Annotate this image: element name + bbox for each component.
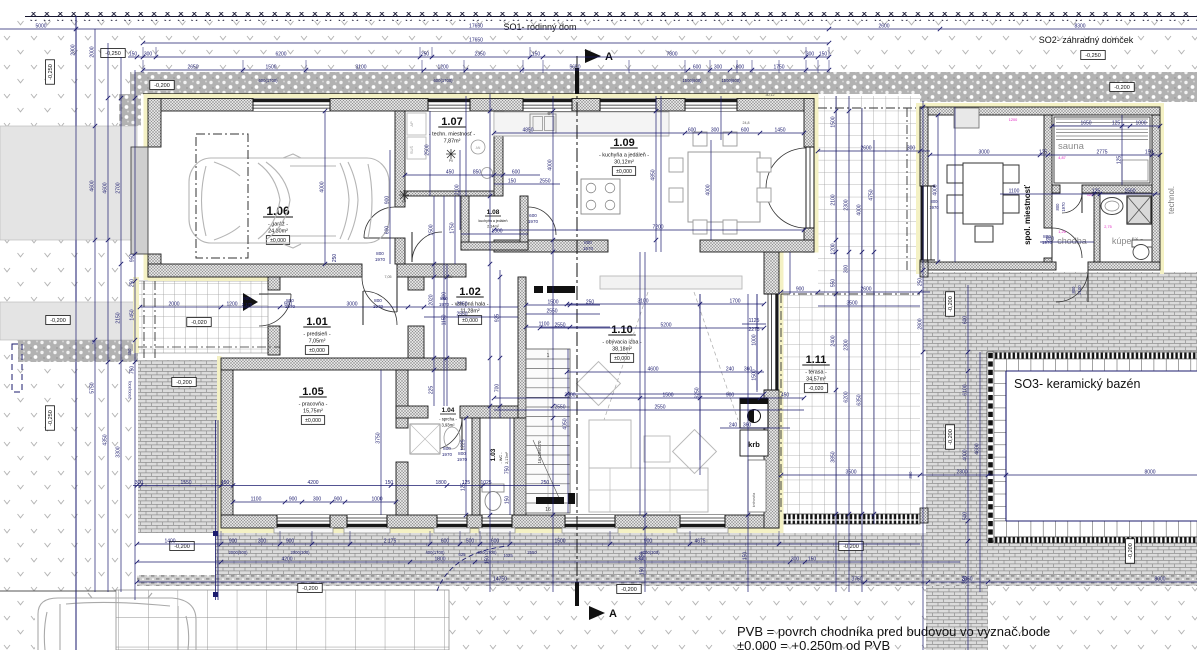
svg-text:300: 300 bbox=[714, 65, 723, 71]
svg-text:- kuchyňa a jedáleň -: - kuchyňa a jedáleň - bbox=[599, 153, 649, 159]
wall SO2 sauna bottom west bbox=[1052, 185, 1060, 193]
dim 1.07 chain bbox=[405, 174, 540, 176]
car in garage bbox=[189, 154, 389, 248]
svg-text:11,28: 11,28 bbox=[444, 275, 453, 279]
terrain grass hatch bottom left corner bbox=[0, 592, 35, 650]
dim living 3100 bbox=[567, 303, 764, 305]
insulation SO2 top bbox=[916, 103, 1164, 107]
wall SO1 left upper bbox=[148, 99, 161, 148]
pool SO3 bottom black stripe bbox=[994, 537, 1197, 543]
dim living 4600 bbox=[567, 371, 764, 373]
dim garage 4000 bbox=[324, 111, 326, 264]
dim 1.05 chain b bbox=[233, 501, 396, 503]
svg-text:4000: 4000 bbox=[933, 184, 939, 195]
svg-text:950: 950 bbox=[130, 254, 136, 263]
dim 1.02 vert bbox=[499, 270, 501, 418]
svg-text:chodba: chodba bbox=[1057, 236, 1087, 246]
svg-text:7800: 7800 bbox=[666, 52, 677, 58]
dining table with chairs 1.09 bbox=[688, 152, 760, 222]
svg-text:600: 600 bbox=[491, 539, 500, 545]
svg-text:125: 125 bbox=[1117, 156, 1123, 165]
svg-text:4750: 4750 bbox=[869, 189, 875, 200]
svg-text:2150: 2150 bbox=[116, 312, 122, 323]
dim 1.04 v bbox=[465, 418, 467, 515]
svg-text:1025: 1025 bbox=[503, 553, 513, 558]
dim chain SO2 b bbox=[930, 154, 1160, 156]
window garage top bbox=[253, 99, 330, 112]
dim kitchen 4000 bbox=[710, 140, 712, 240]
svg-text:4350: 4350 bbox=[103, 434, 109, 445]
svg-text:sauna: sauna bbox=[1058, 141, 1085, 152]
level box left mid bbox=[46, 316, 70, 325]
svg-text:550: 550 bbox=[831, 279, 837, 288]
washbasin SO2 bbox=[1101, 198, 1123, 215]
svg-text:1.01: 1.01 bbox=[306, 316, 327, 328]
svg-text:1800: 1800 bbox=[435, 480, 446, 486]
svg-text:1.08: 1.08 bbox=[487, 209, 500, 216]
dim chain top 1 left bbox=[0, 28, 940, 30]
tv sideboard living room bbox=[600, 276, 742, 289]
svg-text:±0,000: ±0,000 bbox=[305, 418, 321, 424]
svg-text:krb: krb bbox=[748, 440, 760, 449]
dim stairs top2 bbox=[526, 313, 600, 315]
svg-text:16: 16 bbox=[545, 507, 551, 513]
svg-text:15,75m²: 15,75m² bbox=[303, 409, 323, 415]
svg-text:3300: 3300 bbox=[564, 393, 575, 399]
svg-text:2300: 2300 bbox=[956, 470, 967, 476]
svg-text:1.07: 1.07 bbox=[441, 116, 462, 128]
svg-text:1000: 1000 bbox=[1135, 121, 1146, 127]
svg-text:800: 800 bbox=[374, 298, 382, 303]
svg-text:925: 925 bbox=[495, 314, 501, 323]
svg-text:4600: 4600 bbox=[90, 180, 96, 191]
door garage to porch bbox=[362, 277, 397, 312]
dim 1.03 v bbox=[509, 418, 511, 515]
dim hall v1 bbox=[433, 196, 435, 406]
dim living right v bbox=[756, 294, 758, 390]
wall 1.05 right upper bbox=[396, 370, 408, 428]
svg-text:6250: 6250 bbox=[695, 387, 701, 398]
svg-text:800: 800 bbox=[1055, 203, 1060, 211]
wall SO1 bottom bbox=[221, 515, 779, 528]
svg-text:1550: 1550 bbox=[180, 480, 191, 486]
svg-text:650: 650 bbox=[640, 552, 646, 561]
table with chairs SO2 bbox=[963, 163, 1003, 224]
insulation step kitchen-living bbox=[779, 248, 819, 253]
brick paving block upper right of pool bbox=[923, 272, 1197, 352]
wall SO2 bottom east bbox=[1088, 262, 1160, 270]
wall kitchen bottom east bbox=[700, 240, 814, 252]
svg-text:1.06: 1.06 bbox=[266, 204, 290, 218]
level box pool bottom bbox=[1126, 539, 1135, 563]
level box pool side2 bbox=[946, 425, 955, 449]
level box walkway bbox=[150, 81, 174, 90]
kitchen island cooktop bbox=[581, 179, 620, 214]
brick paving bottom band bbox=[215, 533, 1197, 575]
svg-text:2 175: 2 175 bbox=[384, 539, 397, 545]
wc SO2 bbox=[1132, 240, 1152, 247]
dim hall chain2 bbox=[424, 316, 518, 318]
svg-text:4000: 4000 bbox=[548, 159, 554, 170]
level box porch bbox=[187, 318, 211, 327]
dim chain right B bbox=[848, 96, 850, 592]
dim chain bottom 1 bbox=[137, 543, 920, 545]
svg-text:4200: 4200 bbox=[307, 480, 318, 486]
wall 1.02 right bbox=[518, 277, 526, 418]
level box bottom1 bbox=[170, 542, 194, 551]
svg-text:14750: 14750 bbox=[493, 577, 507, 583]
window 1.05 bottom 1 bbox=[277, 515, 330, 528]
svg-text:4000: 4000 bbox=[963, 449, 969, 460]
svg-text:800: 800 bbox=[908, 471, 913, 479]
wall SO2 left lower bbox=[920, 260, 928, 270]
dim chain below kitchen right bbox=[781, 291, 930, 293]
gate swing dashed arc driveway bbox=[437, 546, 508, 591]
dim chain top 2 bbox=[143, 42, 829, 44]
wall kitchen right lower bbox=[804, 228, 814, 252]
dim kitchen 2550b bbox=[494, 409, 804, 411]
svg-text:1970: 1970 bbox=[1061, 202, 1066, 212]
door 1.01 to 1.02 bbox=[363, 291, 397, 325]
witness lines top bbox=[142, 60, 144, 73]
wall 1.01 bottom bbox=[221, 358, 466, 370]
svg-text:7,87m²: 7,87m² bbox=[444, 139, 461, 145]
svg-text:1100: 1100 bbox=[539, 322, 550, 328]
svg-text:17650: 17650 bbox=[469, 24, 483, 30]
window kitchen top 2 bbox=[600, 99, 656, 112]
terrace tiles area right of house bbox=[818, 96, 920, 514]
svg-text:-0,250: -0,250 bbox=[48, 64, 54, 80]
svg-text:±0,000: ±0,000 bbox=[614, 356, 630, 362]
svg-text:kuchyňa a jedáleň: kuchyňa a jedáleň bbox=[479, 219, 508, 223]
svg-text:- terasa -: - terasa - bbox=[805, 370, 827, 376]
svg-text:600: 600 bbox=[529, 213, 537, 218]
svg-text:4600: 4600 bbox=[103, 182, 109, 193]
wall 1.07 bottom bbox=[405, 191, 494, 196]
insulation porch edge bbox=[133, 277, 139, 353]
svg-text:1650: 1650 bbox=[1080, 121, 1091, 127]
svg-text:1970: 1970 bbox=[528, 219, 539, 224]
gate dashed marker left boundary bbox=[12, 344, 22, 392]
insulation top wall bbox=[148, 94, 814, 99]
boundary fence x-marks bbox=[25, 12, 1197, 21]
vertical dim line x640 bbox=[639, 252, 641, 515]
svg-text:2775: 2775 bbox=[1096, 150, 1107, 156]
shower SO2 bbox=[1127, 196, 1151, 224]
terrace corner block upper bbox=[920, 262, 928, 277]
vertical dim line x490 bbox=[489, 94, 491, 592]
dim 1.08 1300 bbox=[461, 233, 528, 235]
svg-text:5650: 5650 bbox=[569, 65, 580, 71]
wall 1.01-1.02 upper bbox=[408, 277, 424, 290]
svg-text:500: 500 bbox=[963, 512, 969, 521]
dim kitchen 3300 bbox=[494, 397, 804, 399]
svg-text:6200: 6200 bbox=[844, 391, 850, 402]
svg-text:750: 750 bbox=[130, 366, 136, 375]
svg-text:1500: 1500 bbox=[554, 539, 565, 545]
roof overhang dash-dot rect in garage bbox=[196, 134, 248, 258]
svg-text:A: A bbox=[609, 608, 617, 620]
svg-text:400(1700): 400(1700) bbox=[425, 550, 445, 555]
dim chain top 1 right bbox=[940, 28, 1197, 30]
wall living right lower bbox=[764, 390, 779, 528]
svg-text:16x186/270: 16x186/270 bbox=[537, 440, 542, 464]
svg-text:300: 300 bbox=[711, 128, 720, 134]
level box terrace bottom bbox=[617, 585, 641, 594]
interior elevation marks near stairs bbox=[547, 286, 575, 293]
svg-text:4000: 4000 bbox=[857, 204, 863, 215]
wall living right upper bbox=[764, 252, 779, 294]
svg-text:1200: 1200 bbox=[1009, 118, 1017, 122]
overhang dash-dot SO2 horizontal bbox=[818, 107, 920, 109]
svg-text:1.10: 1.10 bbox=[611, 324, 632, 336]
svg-text:3100: 3100 bbox=[637, 299, 648, 305]
svg-text:2800: 2800 bbox=[918, 318, 924, 329]
level box pool side1 bbox=[946, 292, 955, 316]
insulation SO2 right bbox=[1160, 103, 1164, 274]
dim kitchen top chain bbox=[494, 132, 804, 134]
svg-text:- pracovňa -: - pracovňa - bbox=[299, 402, 328, 408]
svg-text:800: 800 bbox=[443, 446, 451, 451]
svg-text:7200: 7200 bbox=[652, 225, 663, 231]
svg-text:±0,000: ±0,000 bbox=[309, 348, 325, 354]
french door frame kitchen right bbox=[806, 147, 814, 228]
svg-text:1970: 1970 bbox=[583, 246, 594, 251]
svg-text:240: 240 bbox=[729, 423, 738, 429]
window 1.07 top bbox=[428, 99, 470, 112]
dim 1.07 2100b bbox=[459, 150, 461, 230]
horizontal dim y428 living bbox=[720, 427, 790, 429]
svg-text:1970: 1970 bbox=[1042, 240, 1053, 245]
svg-text:1500: 1500 bbox=[752, 369, 758, 380]
walkway pebble band top bbox=[130, 72, 1197, 94]
floor drain PV symbol garage bbox=[399, 190, 409, 200]
svg-text:-0,200: -0,200 bbox=[176, 380, 192, 386]
svg-text:1500: 1500 bbox=[662, 393, 673, 399]
svg-text:1450: 1450 bbox=[774, 128, 785, 134]
door garage to 1.07 bbox=[364, 207, 395, 238]
svg-text:2550: 2550 bbox=[456, 312, 467, 318]
dim chain left D bbox=[134, 70, 136, 600]
wall 1.04-1.03 divider bbox=[472, 418, 480, 515]
svg-text:2100: 2100 bbox=[1077, 285, 1082, 295]
dim 1.07 2100a bbox=[429, 111, 431, 196]
dim chain SO2 a bbox=[1052, 125, 1160, 127]
svg-text:- WC -: - WC - bbox=[499, 452, 503, 464]
level box bottom2 bbox=[839, 542, 863, 551]
svg-text:1200: 1200 bbox=[226, 302, 237, 308]
level box left lower bbox=[46, 406, 55, 430]
svg-text:2650: 2650 bbox=[187, 65, 198, 71]
svg-text:-0,200: -0,200 bbox=[50, 318, 66, 324]
svg-text:350: 350 bbox=[963, 576, 969, 585]
svg-text:300: 300 bbox=[806, 52, 815, 58]
dim 1.07 chain2 bbox=[494, 183, 560, 185]
svg-text:600(1700): 600(1700) bbox=[433, 78, 453, 83]
level box SO2 b bbox=[1110, 83, 1134, 92]
svg-text:150: 150 bbox=[640, 567, 646, 576]
door SO2 chodba bbox=[1052, 228, 1082, 258]
wall SO2 chodba-kupelna bbox=[1094, 193, 1100, 262]
svg-text:600: 600 bbox=[741, 128, 750, 134]
brick paving path left of room 1.05 bbox=[138, 360, 217, 533]
svg-text:1970: 1970 bbox=[442, 452, 453, 457]
svg-text:5000: 5000 bbox=[35, 24, 46, 30]
washer dryer 1.07 bbox=[407, 113, 426, 135]
dim chain left B bbox=[107, 43, 109, 592]
svg-text:1970: 1970 bbox=[373, 304, 384, 309]
wall 1.08 bottom bbox=[461, 242, 528, 250]
svg-text:750: 750 bbox=[505, 466, 511, 475]
dim chain left E bbox=[75, 16, 77, 650]
svg-text:2400: 2400 bbox=[831, 335, 837, 346]
window 1.05 bottom 2 bbox=[347, 515, 387, 528]
pool SO3 left black stripe bbox=[987, 352, 994, 541]
svg-text:-0,200: -0,200 bbox=[1128, 543, 1134, 559]
svg-text:1.05: 1.05 bbox=[302, 386, 323, 398]
svg-text:±0,000 = +0,250m od PVB: ±0,000 = +0,250m od PVB bbox=[737, 638, 890, 650]
svg-text:150: 150 bbox=[808, 557, 817, 563]
overhang dash-dot SO2 vertical bbox=[906, 108, 908, 270]
svg-text:PVB = povrch chodníka pred bud: PVB = povrch chodníka pred budovou vo vy… bbox=[737, 624, 1050, 639]
svg-text:1300: 1300 bbox=[491, 229, 502, 235]
wall 1.02 bottom west bbox=[396, 406, 428, 418]
svg-text:-0,200: -0,200 bbox=[154, 83, 170, 89]
svg-text:1.09: 1.09 bbox=[613, 137, 634, 149]
svg-text:2000: 2000 bbox=[71, 44, 77, 55]
porch tiles entrance bbox=[138, 281, 268, 353]
svg-text:2350: 2350 bbox=[474, 52, 485, 58]
svg-text:900: 900 bbox=[796, 287, 805, 293]
svg-text:-0,250: -0,250 bbox=[105, 51, 121, 57]
dim chain right of kitchen bbox=[818, 150, 930, 152]
svg-text:600: 600 bbox=[963, 316, 969, 325]
neighbour paved slab lower left bbox=[0, 302, 137, 340]
svg-text:-0,200: -0,200 bbox=[1114, 85, 1130, 91]
window sill bottom 6 bbox=[677, 528, 728, 533]
window living bottom 2 bbox=[680, 515, 725, 528]
svg-text:150: 150 bbox=[485, 556, 491, 565]
svg-text:900: 900 bbox=[243, 296, 251, 301]
window sill bottom 5 bbox=[562, 528, 618, 533]
svg-text:360: 360 bbox=[743, 423, 752, 429]
svg-text:2500: 2500 bbox=[425, 144, 431, 155]
brick paving vertical strip between terrace and pool bbox=[926, 352, 988, 650]
svg-text:125: 125 bbox=[1092, 189, 1101, 195]
svg-text:SUŠ: SUŠ bbox=[409, 146, 414, 155]
floor drain PV symbol 1.07 bbox=[446, 149, 456, 159]
vertical dim line x721 bbox=[720, 96, 722, 140]
dim chain bottom 3 bbox=[137, 581, 1197, 583]
dim chain right A bbox=[835, 96, 837, 592]
svg-text:1500: 1500 bbox=[265, 65, 276, 71]
svg-text:4675: 4675 bbox=[694, 539, 705, 545]
svg-text:1970: 1970 bbox=[929, 205, 939, 210]
wall porch east lower bbox=[268, 326, 280, 355]
svg-text:800: 800 bbox=[376, 251, 384, 256]
svg-text:600: 600 bbox=[693, 65, 702, 71]
svg-text:1: 1 bbox=[547, 353, 550, 359]
svg-text:2000(300): 2000(300) bbox=[290, 550, 310, 555]
horizontal dim y394 living bbox=[567, 393, 764, 395]
svg-text:1560: 1560 bbox=[1124, 189, 1135, 195]
svg-text:150: 150 bbox=[505, 496, 511, 505]
svg-text:600: 600 bbox=[441, 539, 450, 545]
svg-text:30,12: 30,12 bbox=[766, 93, 775, 97]
svg-text:AN: AN bbox=[476, 146, 481, 150]
svg-text:1200: 1200 bbox=[831, 243, 837, 254]
pool SO3 top tile band bbox=[994, 359, 1197, 371]
dim living 5200 bbox=[540, 327, 764, 329]
walkway pebble entrance path left bbox=[18, 340, 138, 362]
dim chain top 4 bbox=[143, 69, 829, 71]
svg-text:1500: 1500 bbox=[831, 116, 837, 127]
svg-text:1970: 1970 bbox=[375, 257, 386, 262]
dim chain right E bbox=[922, 101, 924, 650]
window kitchen top 3 bbox=[685, 99, 737, 112]
svg-text:3750: 3750 bbox=[851, 577, 862, 583]
svg-text:knihovňa: knihovňa bbox=[752, 493, 756, 507]
svg-text:4,87: 4,87 bbox=[1058, 156, 1065, 160]
svg-text:900: 900 bbox=[334, 497, 343, 503]
wall SO1 top bbox=[148, 99, 814, 112]
svg-text:625: 625 bbox=[459, 552, 467, 557]
dim 1.05 3750 bbox=[380, 370, 382, 515]
terrace dash-dot left edge bbox=[780, 294, 782, 514]
wall garage bottom west bbox=[148, 264, 362, 277]
svg-text:2550: 2550 bbox=[554, 405, 565, 411]
wall SO2 top bbox=[920, 107, 1160, 115]
wall 1.08 right bbox=[520, 196, 528, 250]
svg-text:7,05m²: 7,05m² bbox=[309, 339, 326, 345]
svg-text:7,05: 7,05 bbox=[385, 275, 392, 279]
svg-text:-0,200: -0,200 bbox=[621, 587, 637, 593]
svg-text:8000: 8000 bbox=[1144, 470, 1155, 476]
door hall up to kitchen corridor bbox=[412, 232, 442, 262]
svg-text:150: 150 bbox=[532, 52, 541, 58]
svg-text:1500: 1500 bbox=[429, 224, 435, 235]
level box topleft2 bbox=[46, 60, 55, 84]
svg-text:900: 900 bbox=[385, 196, 391, 205]
wall kitchen bottom west bbox=[494, 240, 608, 252]
svg-text:1100: 1100 bbox=[1009, 189, 1020, 195]
svg-text:1400: 1400 bbox=[164, 539, 175, 545]
car on driveway bottom left bbox=[38, 593, 196, 650]
window sill bottom 4 bbox=[479, 528, 515, 533]
wall 1.08 left bbox=[461, 196, 469, 250]
svg-text:300: 300 bbox=[907, 146, 916, 152]
dim 1.08 v bbox=[454, 196, 456, 264]
svg-text:800: 800 bbox=[286, 298, 294, 303]
svg-text:300: 300 bbox=[135, 480, 144, 486]
boiler circles 1.07 bbox=[471, 140, 485, 154]
insulation right wall kitchen bbox=[814, 94, 819, 252]
svg-text:4850: 4850 bbox=[522, 128, 533, 134]
pool SO3 left tile band bbox=[994, 371, 1006, 521]
insulation porch top bbox=[148, 277, 268, 281]
wall SO2 sauna bottom east bbox=[1082, 185, 1152, 193]
svg-text:2950: 2950 bbox=[456, 302, 467, 308]
witness lines bottom bbox=[220, 531, 222, 545]
svg-text:2300: 2300 bbox=[844, 199, 850, 210]
vertical dim line x444 bbox=[443, 196, 445, 406]
coffee table 1.10 bbox=[644, 436, 670, 462]
svg-text:-0,200: -0,200 bbox=[302, 586, 318, 592]
svg-text:3300: 3300 bbox=[116, 446, 122, 457]
pool SO3 bottom tile band bbox=[994, 521, 1197, 537]
svg-text:2600: 2600 bbox=[878, 24, 889, 30]
vertical dim line x661 bbox=[660, 96, 662, 252]
